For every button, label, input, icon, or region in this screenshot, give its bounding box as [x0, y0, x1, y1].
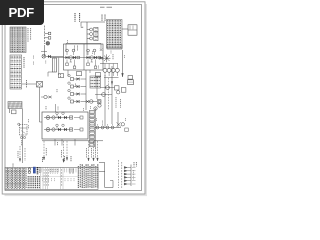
svg-text:PDF: PDF: [9, 5, 35, 20]
